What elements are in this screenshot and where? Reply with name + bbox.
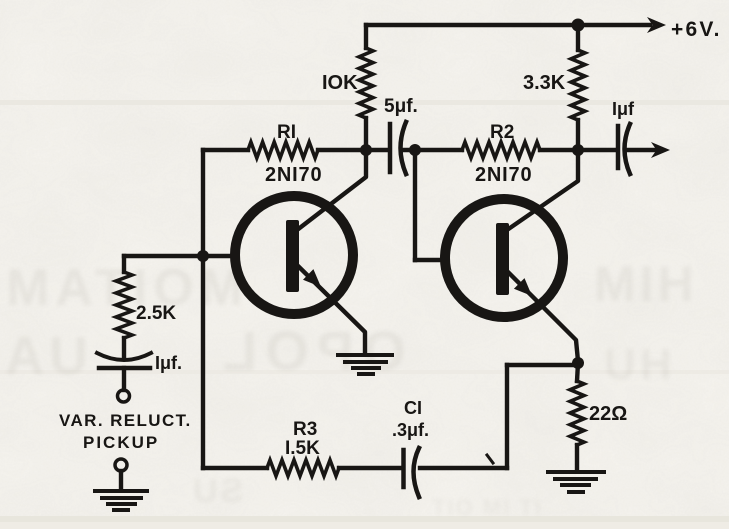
ground left xyxy=(95,491,147,510)
transistor Q1 2N170 xyxy=(235,150,366,353)
ground right xyxy=(548,472,604,492)
svg-text:RI: RI xyxy=(277,122,296,143)
svg-text:PICKUP: PICKUP xyxy=(83,433,159,452)
svg-text:2.5K: 2.5K xyxy=(136,303,176,324)
resistor 10K xyxy=(359,25,373,150)
+6V arrowhead xyxy=(647,17,666,33)
wire base Q2 xyxy=(415,150,445,260)
svg-text:Iμf.: Iμf. xyxy=(155,353,182,373)
wire bottom feedback xyxy=(203,466,400,470)
capacitor 1uf input xyxy=(97,353,151,390)
capacitor 5uf xyxy=(366,122,415,174)
stray mark near C1 xyxy=(487,455,493,463)
terminal circle lower xyxy=(115,459,127,471)
terminal circle upper xyxy=(118,390,130,402)
resistor R2 xyxy=(415,142,578,158)
svg-text:22Ω: 22Ω xyxy=(589,403,627,425)
resistor 3.3K xyxy=(571,25,585,150)
ground under Q1 xyxy=(338,355,392,374)
node E emitter junction xyxy=(572,357,584,369)
svg-text:5μf.: 5μf. xyxy=(384,96,418,117)
svg-text:CI: CI xyxy=(404,398,422,418)
wire emitter to C1 branch xyxy=(507,365,578,468)
node C junction 3.3K/collector2/output xyxy=(572,144,584,156)
svg-text:3.3K: 3.3K xyxy=(523,72,566,94)
capacitor C1 xyxy=(404,448,508,497)
node A junction 10K/R1/collector xyxy=(360,144,372,156)
svg-text:2NI70: 2NI70 xyxy=(265,164,322,186)
capacitor 1uf output xyxy=(578,124,655,174)
node supply junction xyxy=(572,19,585,32)
svg-text:I.5K: I.5K xyxy=(285,438,320,459)
svg-text:.3μf.: .3μf. xyxy=(392,420,429,440)
svg-text:+6V.: +6V. xyxy=(671,18,722,41)
wire top supply rail xyxy=(366,23,650,27)
wire base Q1 xyxy=(124,254,234,258)
svg-text:VAR. RELUCT.: VAR. RELUCT. xyxy=(59,411,192,430)
resistor R1 xyxy=(203,142,366,158)
node B junction cap/R2/base2 xyxy=(409,144,421,156)
wire terminal to ground xyxy=(119,471,123,489)
output arrowhead xyxy=(651,142,670,158)
svg-text:Iμf: Iμf xyxy=(612,99,635,119)
svg-text:IOK: IOK xyxy=(322,72,358,94)
node D junction base1/vertical xyxy=(197,250,209,262)
svg-text:R3: R3 xyxy=(293,419,317,440)
resistor R3 xyxy=(267,460,339,476)
wire left vertical feedback xyxy=(201,150,205,468)
svg-text:2NI70: 2NI70 xyxy=(475,164,532,186)
svg-text:R2: R2 xyxy=(490,122,514,143)
transistor Q2 2N170 xyxy=(445,150,578,361)
resistor 2.5K xyxy=(116,256,132,358)
resistor 22 ohm xyxy=(570,363,584,470)
